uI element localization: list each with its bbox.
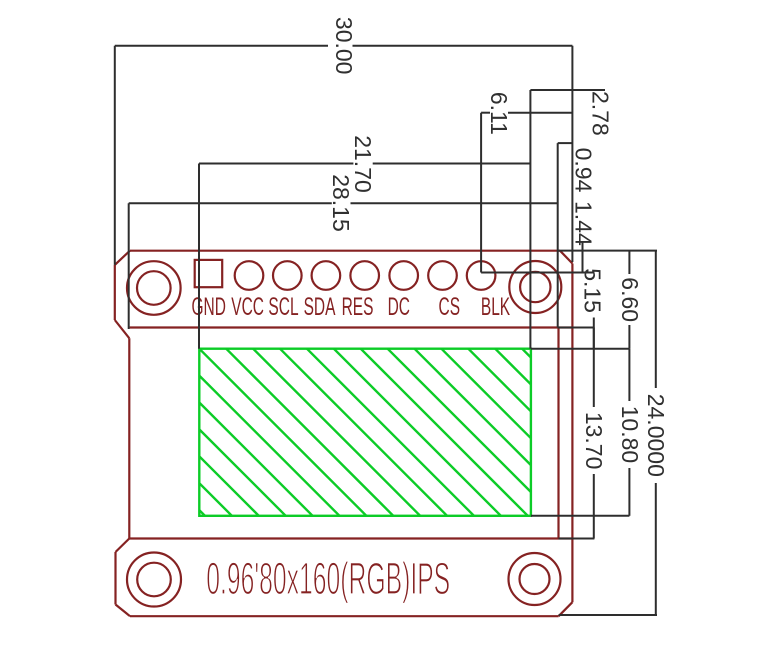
svg-text:13.70: 13.70: [581, 412, 607, 470]
svg-text:SDA: SDA: [304, 293, 336, 321]
svg-text:0.94: 0.94: [571, 148, 597, 193]
svg-text:30.00: 30.00: [331, 17, 357, 75]
svg-text:DC: DC: [388, 293, 410, 321]
svg-text:1.44: 1.44: [571, 201, 597, 246]
svg-text:GND: GND: [191, 293, 225, 321]
svg-text:BLK: BLK: [481, 293, 510, 321]
svg-text:SCL: SCL: [268, 293, 298, 321]
svg-text:6.11: 6.11: [486, 92, 512, 135]
svg-text:28.15: 28.15: [328, 174, 354, 232]
svg-text:0.96'80x160(RGB)IPS: 0.96'80x160(RGB)IPS: [206, 553, 450, 604]
svg-text:6.60: 6.60: [617, 277, 643, 322]
svg-text:5.15: 5.15: [580, 268, 606, 313]
svg-text:10.80: 10.80: [617, 406, 643, 464]
svg-text:2.78: 2.78: [587, 91, 613, 136]
svg-text:VCC: VCC: [231, 293, 264, 321]
svg-text:24.0000: 24.0000: [643, 394, 669, 477]
svg-text:CS: CS: [439, 293, 461, 321]
svg-text:RES: RES: [342, 293, 374, 321]
